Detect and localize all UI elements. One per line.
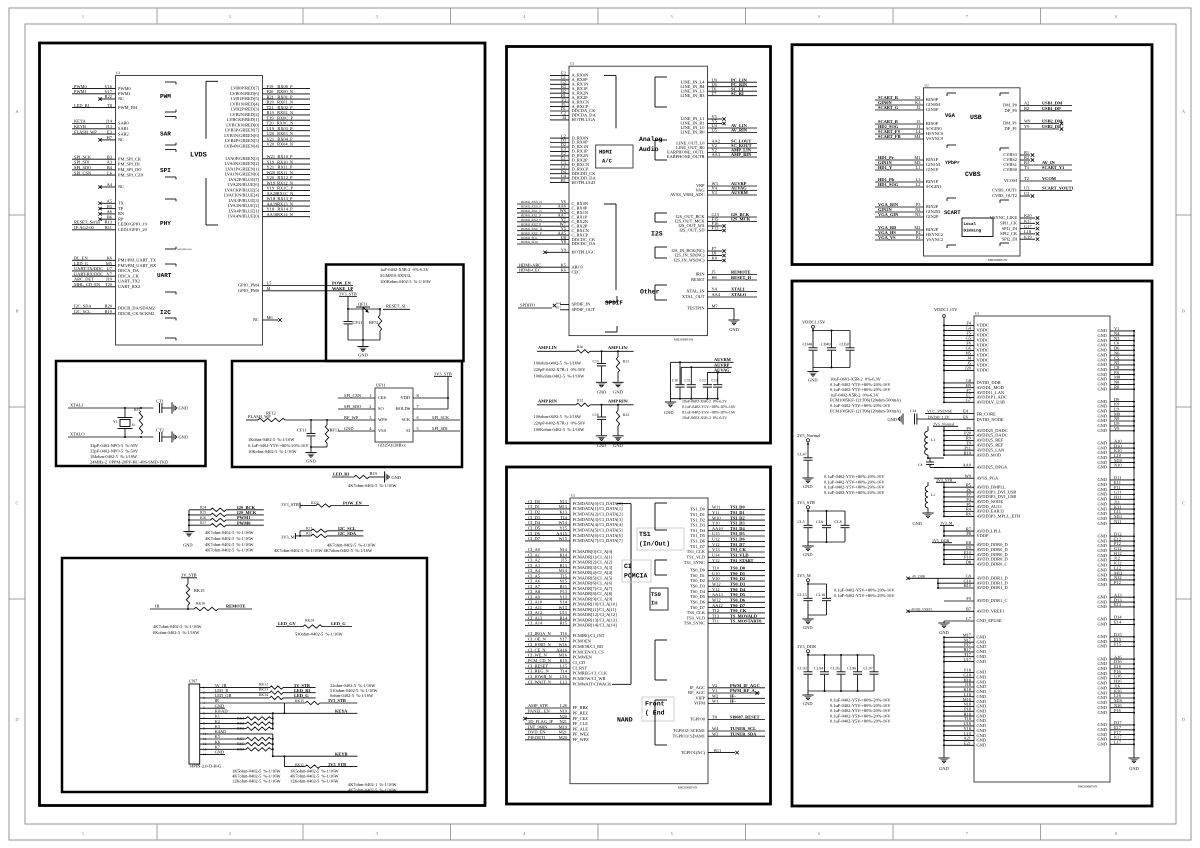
inductor L1 xyxy=(925,431,928,455)
bus bracket xyxy=(617,503,631,505)
svg-text:CI_A14: CI_A14 xyxy=(528,621,543,626)
pin VDDC xyxy=(944,354,974,356)
svg-text:RX12_P: RX12_P xyxy=(277,175,293,180)
pin 3 LED_GB xyxy=(200,697,270,699)
svg-text:VIFM: VIFM xyxy=(694,701,705,706)
svg-text:J14: J14 xyxy=(106,119,113,124)
svg-text:R19: R19 xyxy=(370,471,378,476)
svg-text:AVDDLV_USB: AVDDLV_USB xyxy=(977,400,1005,405)
svg-text:C: C xyxy=(1182,501,1185,506)
svg-text:GPIO_PM4: GPIO_PM4 xyxy=(238,283,260,288)
svg-text:KEYA: KEYA xyxy=(74,119,87,124)
svg-text:AA10: AA10 xyxy=(712,526,724,531)
svg-text:BL_EN: BL_EN xyxy=(74,256,88,261)
pin AVDD_DDR1_D xyxy=(906,577,909,580)
svg-text:12Kohm-0402-5 %-1/16W: 12Kohm-0402-5 %-1/16W xyxy=(290,779,339,784)
Local Dimming sub box xyxy=(962,218,993,237)
svg-text:UART: UART xyxy=(157,272,172,279)
svg-text:0.1uF-0402-Y5V-+80%-20%-16V: 0.1uF-0402-Y5V-+80%-20%-16V xyxy=(824,490,885,495)
pin SAR0 xyxy=(72,123,116,125)
svg-text:11: 11 xyxy=(203,737,207,741)
svg-text:V1: V1 xyxy=(712,688,717,693)
pin SO xyxy=(338,408,375,410)
pin PF_CLE xyxy=(525,723,570,725)
svg-text:U10: U10 xyxy=(712,571,720,576)
pin 10 K4AD xyxy=(200,733,273,735)
svg-text:G17: G17 xyxy=(1024,224,1032,229)
pin AVDD_DDR0_D xyxy=(944,544,974,546)
CI PCMCIA box xyxy=(507,467,771,804)
svg-text:TS1_SYNC: TS1_SYNC xyxy=(684,560,705,565)
svg-text:TS1_D4: TS1_D4 xyxy=(690,528,706,533)
svg-text:3: 3 xyxy=(376,831,379,836)
pin AVDD_MOD xyxy=(944,454,974,456)
svg-text:K20: K20 xyxy=(1024,213,1032,218)
svg-text:GIN2P: GIN2P xyxy=(926,214,939,219)
svg-text:PCMADR[13]/CI_A[13]: PCMADR[13]/CI_A[13] xyxy=(573,617,618,622)
svg-text:GND: GND xyxy=(215,750,225,755)
svg-text:W16: W16 xyxy=(558,642,567,647)
ground xyxy=(612,435,623,437)
svg-text:M5: M5 xyxy=(106,261,113,266)
pin 9 K3 xyxy=(200,728,246,730)
pin GIN2M xyxy=(875,211,924,213)
svg-text:PCMIOW/CI_WR: PCMIOW/CI_WR xyxy=(573,676,606,681)
svg-text:RK5: RK5 xyxy=(237,737,244,741)
svg-text:N13: N13 xyxy=(559,499,567,504)
svg-text:SCART_G: SCART_G xyxy=(878,105,899,110)
pin PCMADR[2]/CI_A[2] xyxy=(525,562,570,564)
svg-text:RX02_P: RX02_P xyxy=(277,105,293,110)
svg-text:SPI_SDI: SPI_SDI xyxy=(74,160,90,165)
svg-text:SI9687_RESET: SI9687_RESET xyxy=(730,715,760,720)
pin PCMREG/CI_CLK xyxy=(525,673,570,675)
capacitor CF11 xyxy=(310,420,312,433)
svg-text:TS0_D2: TS0_D2 xyxy=(730,576,745,581)
svg-text:F15: F15 xyxy=(1114,642,1122,647)
svg-text:U5: U5 xyxy=(712,128,718,133)
svg-text:0.1uF-0402-Y5V-+80%-20%-16V: 0.1uF-0402-Y5V-+80%-20%-16V xyxy=(834,588,895,593)
svg-text:FLASH_WP: FLASH_WP xyxy=(74,129,97,134)
svg-text:4: 4 xyxy=(369,426,372,431)
svg-text:U2: U2 xyxy=(925,83,929,87)
pin VDDC xyxy=(944,369,974,371)
svg-text:K19: K19 xyxy=(1024,234,1032,239)
IC U3 HDMI/audio section xyxy=(569,66,708,335)
svg-text:TS1_D3: TS1_D3 xyxy=(690,523,706,528)
bus bracket xyxy=(604,203,616,205)
svg-text:FCM1005KF-121T06(120ohm-500mA): FCM1005KF-121T06(120ohm-500mA) xyxy=(830,408,901,413)
pin SAR2 xyxy=(72,133,116,135)
pin D_RX2P xyxy=(550,159,569,161)
svg-text:0.1uF-0402-Y5V-+80%-20%-16V: 0.1uF-0402-Y5V-+80%-20%-16V xyxy=(682,410,736,414)
svg-text:M13: M13 xyxy=(559,504,568,509)
resistor R33 xyxy=(617,405,619,411)
pin PCMADR[4]/CI_A[4] xyxy=(525,572,570,574)
svg-text:I2C_SCL: I2C_SCL xyxy=(74,309,91,314)
svg-text:DDCB_DA/SDAM2: DDCB_DA/SDAM2 xyxy=(118,306,155,311)
wire xyxy=(670,362,672,398)
svg-text:HD1_SOG: HD1_SOG xyxy=(878,182,899,187)
svg-text:W21: W21 xyxy=(267,154,276,159)
pin VDDC xyxy=(944,344,974,346)
svg-text:CVBS_OUT1: CVBS_OUT1 xyxy=(992,188,1017,193)
svg-text:RF51: RF51 xyxy=(369,320,379,325)
pin PCMDATA[5]/CI_DATA[5] xyxy=(525,529,570,531)
svg-text:D8: D8 xyxy=(966,560,972,565)
svg-text:H7: H7 xyxy=(107,135,113,140)
pin DDCA_DA xyxy=(72,270,116,272)
svg-text:AMP_STB: AMP_STB xyxy=(528,703,548,708)
svg-text:U2: U2 xyxy=(571,494,575,498)
svg-text:CI_IORD_N: CI_IORD_N xyxy=(528,642,552,647)
connector CN7 xyxy=(189,684,200,764)
svg-text:U14: U14 xyxy=(712,553,720,558)
svg-text:U2: U2 xyxy=(570,62,574,66)
pin C_RX1P xyxy=(517,216,569,218)
svg-text:HDMI_RX2_N: HDMI_RX2_N xyxy=(521,218,542,222)
pin C_RX1N xyxy=(517,212,569,214)
svg-text:RK2: RK2 xyxy=(237,722,244,726)
svg-text:SAR2: SAR2 xyxy=(118,131,129,136)
svg-text:L2: L2 xyxy=(931,493,935,497)
svg-text:TS0_D1: TS0_D1 xyxy=(690,573,705,578)
svg-text:WAKE_UP: WAKE_UP xyxy=(332,286,354,291)
resistors RK5-RK7 xyxy=(272,734,274,756)
svg-text:C11: C11 xyxy=(685,379,691,383)
svg-text:PCMDATA[7]/CI_DATA[7]: PCMDATA[7]/CI_DATA[7] xyxy=(573,538,624,543)
svg-text:TS0_D6: TS0_D6 xyxy=(730,598,746,603)
svg-text:100ohm-0402-5 %-1/16W: 100ohm-0402-5 %-1/16W xyxy=(534,361,582,366)
svg-text:P13: P13 xyxy=(560,589,568,594)
svg-text:AVDD_DDR0_C: AVDD_DDR0_C xyxy=(977,562,1008,567)
svg-text:RK16: RK16 xyxy=(196,602,205,606)
pin LED0/GPIO_19 xyxy=(72,224,116,226)
svg-text:PF_RBZ: PF_RBZ xyxy=(573,705,589,710)
svg-text:T21: T21 xyxy=(267,105,274,110)
pin A_RX2P xyxy=(550,97,569,99)
svg-text:G7: G7 xyxy=(966,398,972,403)
svg-text:T12: T12 xyxy=(712,608,719,613)
svg-text:HDMI_RX1_P: HDMI_RX1_P xyxy=(521,214,541,218)
group divider marks xyxy=(655,76,667,78)
svg-text:CI_A3: CI_A3 xyxy=(528,563,541,568)
svg-text:U20: U20 xyxy=(267,131,275,136)
capacitor CL95 xyxy=(840,654,842,656)
svg-text:CL94: CL94 xyxy=(814,666,823,671)
svg-text:1: 1 xyxy=(82,14,84,19)
ground xyxy=(612,381,623,383)
svg-text:1V5_DDR: 1V5_DDR xyxy=(932,538,950,543)
svg-text:V21: V21 xyxy=(267,136,275,141)
pin PF_RBZ xyxy=(525,707,570,709)
svg-text:LVB1P/RED[5]: LVB1P/RED[5] xyxy=(231,96,260,101)
svg-text:GIN0P: GIN0P xyxy=(926,107,939,112)
svg-text:SCART: SCART xyxy=(944,209,961,216)
svg-text:PCMDATA[4]/CI_DATA[4]: PCMDATA[4]/CI_DATA[4] xyxy=(573,522,624,527)
pin VDDC xyxy=(944,324,974,326)
svg-text:XTALI: XTALI xyxy=(731,287,745,292)
svg-text:KEYB: KEYB xyxy=(74,124,86,129)
svg-text:TS0_D4: TS0_D4 xyxy=(690,589,706,594)
ground xyxy=(943,621,945,623)
svg-text:T8: T8 xyxy=(712,715,718,720)
svg-text:WP#: WP# xyxy=(378,417,388,422)
svg-text:SC_RI: SC_RI xyxy=(731,91,744,96)
svg-text:H10: H10 xyxy=(963,583,971,588)
pin PF_CEZ xyxy=(525,718,570,720)
svg-text:TS0_D2: TS0_D2 xyxy=(690,578,705,583)
pin GND xyxy=(944,701,974,703)
svg-text:GND: GND xyxy=(1129,766,1139,771)
svg-text:DVD_EN: DVD_EN xyxy=(528,730,546,735)
pin DDCB_DA/SDAM2 xyxy=(72,308,116,310)
svg-text:VSYNC2: VSYNC2 xyxy=(926,237,943,242)
svg-text:CI_REG_N: CI_REG_N xyxy=(528,669,550,674)
svg-text:0.1uF-0402-Y5V-+80%-20%-16V: 0.1uF-0402-Y5V-+80%-20%-16V xyxy=(830,382,891,387)
svg-text:0.1uF-0402-Y5V-+80%-20%-16V: 0.1uF-0402-Y5V-+80%-20%-16V xyxy=(682,405,736,409)
svg-text:(In/Out): (In/Out) xyxy=(639,541,670,548)
pin GND xyxy=(944,681,974,683)
svg-text:I2S_OUT_SD: I2S_OUT_SD xyxy=(679,228,704,233)
capacitor CD50 xyxy=(849,331,851,348)
svg-text:PM_SPI_DO: PM_SPI_DO xyxy=(118,167,141,172)
svg-text:B6: B6 xyxy=(107,214,113,219)
svg-text:CD50: CD50 xyxy=(840,342,850,347)
svg-text:KEYA: KEYA xyxy=(335,709,348,714)
svg-text:AVSS_PGA: AVSS_PGA xyxy=(977,475,999,480)
svg-text:W13: W13 xyxy=(558,605,567,610)
svg-text:AUVRM: AUVRM xyxy=(731,190,749,195)
svg-text:L6: L6 xyxy=(107,170,113,175)
svg-text:4K7ohm-0402-5 %-1/16W: 4K7ohm-0402-5 %-1/16W xyxy=(205,548,254,553)
svg-text:C12: C12 xyxy=(700,379,706,383)
resistors RK1-RK3 xyxy=(272,713,274,728)
svg-text:VDDC1.15V: VDDC1.15V xyxy=(802,320,826,325)
svg-text:P12: P12 xyxy=(1114,580,1121,585)
resistor RF51 xyxy=(379,309,381,315)
svg-text:MSD308BT-0N: MSD308BT-0N xyxy=(678,786,698,790)
rail xyxy=(807,443,809,445)
pin C_RXCN xyxy=(517,230,569,232)
pin 6 K0/AD xyxy=(200,712,273,714)
svg-text:NC: NC xyxy=(118,184,124,189)
svg-text:TSI_D5: TSI_D5 xyxy=(730,531,745,536)
pin AVDD1P1_ADC xyxy=(944,396,974,398)
svg-text:GND: GND xyxy=(1097,386,1107,391)
svg-text:T14: T14 xyxy=(560,669,568,674)
svg-text:0Kohm-0402-5 %-1/16W: 0Kohm-0402-5 %-1/16W xyxy=(153,630,200,635)
pin AVDDLV_USB xyxy=(944,401,974,403)
svg-text:3D_FLAG_IF: 3D_FLAG_IF xyxy=(528,719,554,724)
svg-text:N20: N20 xyxy=(559,714,567,719)
svg-text:CI_RESET: CI_RESET xyxy=(528,663,548,668)
ground xyxy=(596,381,607,383)
svg-text:VCC_VSENSE: VCC_VSENSE xyxy=(927,409,953,414)
svg-text:K8: K8 xyxy=(712,256,718,261)
svg-text:GND: GND xyxy=(1097,644,1107,649)
svg-text:CL97: CL97 xyxy=(864,666,873,671)
ground xyxy=(812,368,814,372)
group divider marks xyxy=(655,502,667,504)
ground xyxy=(807,542,809,546)
ground xyxy=(670,399,672,402)
label TS0 In box xyxy=(650,588,668,610)
svg-text:CF11: CF11 xyxy=(297,428,307,433)
svg-text:CI_WE_N: CI_WE_N xyxy=(528,653,548,658)
svg-text:PANEL_EN: PANEL_EN xyxy=(528,709,551,714)
capacitor C15 xyxy=(601,351,603,363)
svg-text:PM1/PM_UART_TX: PM1/PM_UART_TX xyxy=(118,258,157,263)
svg-text:TS1_D0: TS1_D0 xyxy=(690,507,706,512)
pin 13 K7 xyxy=(200,748,246,750)
svg-text:TGPIO3/ SDAM1: TGPIO3/ SDAM1 xyxy=(673,733,705,738)
svg-text:GND: GND xyxy=(808,378,818,383)
resistor network R24-R27 xyxy=(188,510,190,532)
svg-text:L5: L5 xyxy=(267,281,273,286)
svg-text:0.1uF-0402-Y5V-+80%-20%-16V: 0.1uF-0402-Y5V-+80%-20%-16V xyxy=(830,698,891,703)
svg-text:GND: GND xyxy=(344,426,354,431)
pin GND xyxy=(944,705,974,707)
svg-text:P19: P19 xyxy=(267,84,275,89)
svg-text:L26: L26 xyxy=(560,703,568,708)
svg-text:C10: C10 xyxy=(672,379,678,383)
svg-text:SCART_VOUT1: SCART_VOUT1 xyxy=(1042,186,1074,191)
pin GND xyxy=(944,696,974,698)
svg-text:P8: P8 xyxy=(966,531,971,536)
pin A_RX1N xyxy=(550,83,569,85)
svg-text:TS0_SYNC: TS0_SYNC xyxy=(684,621,705,626)
wire bottom xyxy=(348,339,380,341)
svg-text:IRIN: IRIN xyxy=(695,272,705,277)
pin D_RXCP xyxy=(550,168,569,170)
svg-text:6: 6 xyxy=(818,14,821,19)
svg-text:T11: T11 xyxy=(712,619,719,624)
svg-text:TSI_D6: TSI_D6 xyxy=(730,537,745,542)
svg-text:TS0_D3: TS0_D3 xyxy=(690,584,706,589)
capacitor CL16 xyxy=(826,584,828,598)
svg-text:R15: R15 xyxy=(560,621,568,626)
svg-text:CI_OE_N: CI_OE_N xyxy=(528,637,547,642)
pin PCMADR[3]/CI_A[3] xyxy=(525,567,570,569)
svg-text:4: 4 xyxy=(523,831,526,836)
pin GND xyxy=(944,651,974,653)
pin RIN1P xyxy=(875,181,924,183)
svg-text:LVA0P/GREEN[3]: LVA0P/GREEN[3] xyxy=(225,156,259,161)
pin C_RXCP xyxy=(517,234,569,236)
pin GND xyxy=(944,641,974,643)
svg-text:CE#: CE# xyxy=(378,395,387,400)
svg-text:GND: GND xyxy=(1097,622,1107,627)
svg-text:HDMI_RX1_N: HDMI_RX1_N xyxy=(521,209,542,213)
svg-text:TS0_D1: TS0_D1 xyxy=(730,571,745,576)
pin D_RX0P xyxy=(550,142,569,144)
pin DDCA_CK xyxy=(72,275,116,277)
svg-text:GND: GND xyxy=(1097,521,1107,526)
svg-text:UART-RX/DDC: UART-RX/DDC xyxy=(74,271,103,276)
svg-text:3: 3 xyxy=(369,415,372,420)
svg-text:0.1uF-0402-Y5V-+80%-20%-16V: 0.1uF-0402-Y5V-+80%-20%-16V xyxy=(830,719,891,724)
pin DDCB_CK/SCKM2 xyxy=(72,313,116,315)
pin PCMADR[0]/CI_A[0] xyxy=(525,551,570,553)
svg-text:K15: K15 xyxy=(559,658,567,663)
svg-text:TS1_CLK: TS1_CLK xyxy=(687,549,706,554)
svg-text:MSD308BT-0N: MSD308BT-0N xyxy=(674,338,694,342)
svg-text:TS1_D1: TS1_D1 xyxy=(690,512,705,517)
svg-text:PF_CLE: PF_CLE xyxy=(573,721,589,726)
pin DVDD_DDR xyxy=(944,382,974,384)
resistor RK12 xyxy=(270,686,283,689)
bus bracket xyxy=(205,81,207,139)
svg-text:CI_D3: CI_D3 xyxy=(528,515,541,520)
svg-text:GND: GND xyxy=(803,625,813,630)
capacitor CL47 xyxy=(807,444,809,458)
svg-text:LVA2P/BLUE[7]: LVA2P/BLUE[7] xyxy=(229,177,260,182)
svg-text:I2S_IN_WS(NC): I2S_IN_WS(NC) xyxy=(674,258,705,263)
pin DDCDC_DA xyxy=(517,243,569,245)
svg-text:220pF-0402-X7R-1 0%-50V: 220pF-0402-X7R-1 0%-50V xyxy=(534,367,587,372)
svg-text:LVA2N/BLUE[6]: LVA2N/BLUE[6] xyxy=(228,182,260,187)
pin VDDC xyxy=(944,349,974,351)
svg-text:CI_A8: CI_A8 xyxy=(528,589,541,594)
svg-text:LED0/GPIO_19: LED0/GPIO_19 xyxy=(118,222,148,227)
pin RN xyxy=(100,213,116,215)
svg-text:U17: U17 xyxy=(963,657,971,662)
svg-text:LVB3N/GREEN[6]: LVB3N/GREEN[6] xyxy=(224,133,259,138)
svg-text:SPDIF: SPDIF xyxy=(605,300,623,307)
svg-text:TS0_D5: TS0_D5 xyxy=(730,592,746,597)
svg-text:RX10_P: RX10_P xyxy=(277,154,293,159)
svg-text:V12: V12 xyxy=(712,542,720,547)
svg-text:J13: J13 xyxy=(106,124,113,129)
svg-text:SPI2_CK: SPI2_CK xyxy=(1000,231,1018,236)
svg-text:MSD308BT-0N: MSD308BT-0N xyxy=(988,258,1008,262)
svg-text:HOLD#: HOLD# xyxy=(396,406,411,411)
svg-text:B3: B3 xyxy=(107,154,113,159)
pin GND xyxy=(944,646,974,648)
svg-text:TS1: TS1 xyxy=(639,531,651,538)
svg-text:AVDD_DDR1_C: AVDD_DDR1_C xyxy=(977,598,1008,603)
svg-text:TS1_D7: TS1_D7 xyxy=(690,544,706,549)
svg-text:R6: R6 xyxy=(966,512,972,517)
svg-text:L17: L17 xyxy=(1114,740,1122,745)
svg-text:T13: T13 xyxy=(712,613,720,618)
pin UART_TX2 xyxy=(72,281,116,283)
svg-text:A2: A2 xyxy=(1024,101,1029,106)
resistor RK13 xyxy=(270,691,283,694)
svg-text:DP_P1: DP_P1 xyxy=(1005,126,1017,131)
svg-text:VSS: VSS xyxy=(378,428,387,433)
svg-text:TS_MOVALD: TS_MOVALD xyxy=(730,613,757,618)
svg-text:VSYNC0: VSYNC0 xyxy=(926,136,944,141)
svg-text:TSI_START: TSI_START xyxy=(730,558,754,563)
svg-text:VGA_VS: VGA_VS xyxy=(878,235,896,240)
svg-text:V3: V3 xyxy=(712,190,718,195)
svg-text:AMP LIN/: AMP LIN/ xyxy=(608,345,629,350)
pin AVDD25_DADC xyxy=(944,435,974,437)
resistor RK11 xyxy=(283,756,285,766)
svg-text:USB2_DM: USB2_DM xyxy=(1042,119,1063,124)
svg-text:RK1: RK1 xyxy=(237,716,244,720)
svg-text:9: 9 xyxy=(203,727,205,731)
svg-text:PHY: PHY xyxy=(160,220,171,227)
label HDMI A/C xyxy=(596,145,633,168)
pin CEC xyxy=(517,272,569,274)
pin PF_WPZ xyxy=(525,739,570,741)
svg-text:PCMDATA[3]/CI_DATA[3]: PCMDATA[3]/CI_DATA[3] xyxy=(573,517,624,522)
svg-text:U3: U3 xyxy=(1024,186,1030,191)
svg-text:DM_P1: DM_P1 xyxy=(1003,121,1017,126)
